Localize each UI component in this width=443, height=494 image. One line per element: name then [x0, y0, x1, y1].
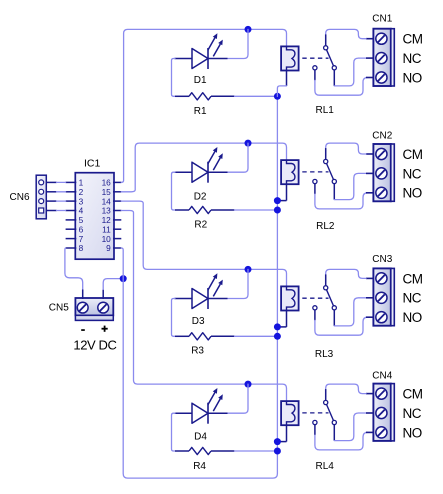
- junction node R4 / bus: [274, 448, 281, 455]
- IC1 pin 12 stub: [113, 219, 121, 221]
- wire IC1 output to channel 2 top rail: [121, 143, 286, 192]
- svg-text:NO: NO: [403, 425, 422, 440]
- wire relay RL2 coil to 12V bus: [277, 184, 286, 200]
- IC1 pin 8 stub: [66, 247, 77, 249]
- wire RL1 NC contact to terminal: [334, 58, 374, 86]
- CN4 screw NO: [376, 427, 387, 438]
- relay RL4 pivot contact: [324, 400, 328, 404]
- IC1 pin 3 stub: [66, 200, 77, 202]
- CN2 screw CM: [376, 148, 387, 159]
- relay RL1 NC contact: [332, 66, 336, 70]
- svg-text:CM: CM: [403, 387, 423, 402]
- wire CN5 plus to 12V bus: [103, 279, 123, 299]
- wire IC1 output to channel 4 top rail: [121, 211, 286, 402]
- resistor R2: [175, 206, 235, 213]
- svg-text:D2: D2: [194, 192, 207, 203]
- resistor R4: [175, 447, 235, 454]
- relay RL3 pivot contact: [324, 286, 328, 290]
- relay RL2 common wire from CM terminal: [326, 143, 375, 159]
- CN1 screw NO: [376, 72, 387, 83]
- wire IC1 pin8 to CN5 minus: [65, 248, 83, 299]
- relay RL4 NC contact: [332, 420, 336, 424]
- CN2 screw NC: [376, 168, 387, 179]
- relay RL4 NO contact: [313, 420, 317, 424]
- IC1 pin 7 stub: [66, 238, 77, 240]
- relay RL3 NO contact: [313, 306, 317, 310]
- wire CN6 pin3 to IC1 pin3: [46, 200, 65, 202]
- relay RL1 NO contact: [313, 66, 317, 70]
- wire RL3 NO contact to terminal: [315, 310, 375, 335]
- wire LED D2 anode to resistor R2: [172, 172, 176, 210]
- relay RL1 pivot contact: [324, 46, 328, 50]
- svg-text:IC1: IC1: [84, 157, 101, 169]
- wire relay RL3 coil to 12V bus: [277, 311, 286, 327]
- wire LED D3 anode to resistor R3: [172, 299, 176, 337]
- IC1 pin 5 stub: [66, 219, 77, 221]
- wire CN6 pin1 to IC1 pin1: [46, 181, 65, 183]
- junction node R3 / bus: [274, 333, 281, 340]
- svg-text:RL4: RL4: [316, 461, 335, 472]
- resistor R1: [175, 93, 235, 100]
- CN6 pin 4 square: [39, 208, 44, 213]
- svg-text:12V DC: 12V DC: [73, 338, 116, 353]
- LED D2: [175, 147, 228, 183]
- relay RL4 common wire from CM terminal: [326, 384, 375, 400]
- svg-text:CM: CM: [403, 32, 423, 47]
- IC1 pin 4 stub: [66, 210, 77, 212]
- relay RL3 common wire from CM terminal: [326, 269, 375, 285]
- junction node RL4 coil / bus: [274, 438, 281, 445]
- dashed link RL4 coil to contacts: [302, 412, 328, 414]
- wire LED D2 cathode to top rail: [228, 143, 249, 172]
- wire CN6 pin4 to IC1 pin4: [46, 210, 65, 212]
- svg-text:D1: D1: [194, 75, 207, 86]
- wire RL1 NO contact to terminal: [315, 70, 375, 95]
- wire CN6 pin2 to IC1 pin2: [46, 191, 65, 193]
- CN4 screw NC: [376, 407, 387, 418]
- label plus: [102, 326, 108, 332]
- svg-text:NC: NC: [403, 406, 422, 421]
- relay RL4 switch blade: [327, 404, 334, 420]
- junction node channel 1 top rail: [245, 26, 252, 33]
- wire resistor R4 to 12V bus: [235, 450, 278, 452]
- CN6 pin 1 circle: [39, 180, 44, 185]
- IC1 pin 10 stub: [113, 238, 121, 240]
- terminal block CN2: [373, 144, 394, 201]
- LED D3: [175, 273, 228, 309]
- relay RL4 coil: [281, 401, 299, 425]
- wire LED D1 cathode to top rail: [228, 29, 249, 58]
- svg-text:NO: NO: [403, 310, 422, 325]
- relay RL2 NO contact: [313, 179, 317, 183]
- wire LED D3 cathode to top rail: [228, 269, 249, 298]
- junction node R2 / bus: [274, 207, 281, 214]
- junction node channel 3 top rail: [245, 266, 252, 273]
- relay RL1 coil: [281, 46, 299, 70]
- svg-text:CN6: CN6: [10, 192, 30, 203]
- svg-text:NC: NC: [403, 291, 422, 306]
- svg-text:CN1: CN1: [372, 14, 392, 25]
- IC1 pin 1 stub: [66, 181, 77, 183]
- IC1 pin 13 stub: [113, 210, 121, 212]
- wire relay RL1 coil to 12V bus: [277, 71, 286, 97]
- power terminal CN5 body: [75, 298, 113, 320]
- svg-text:RL2: RL2: [316, 221, 335, 232]
- svg-text:NO: NO: [403, 70, 422, 85]
- connector CN6 body: [36, 175, 46, 219]
- IC1 pin 2 stub: [66, 191, 77, 193]
- terminal block CN3: [373, 268, 394, 325]
- svg-text:R4: R4: [193, 461, 206, 472]
- IC1 pin 14 stub: [113, 200, 121, 202]
- dashed link RL1 coil to contacts: [302, 57, 328, 59]
- svg-text:R3: R3: [191, 346, 204, 357]
- junction node channel 2 top rail: [245, 140, 252, 147]
- wire resistor R3 to 12V bus: [235, 335, 278, 337]
- relay RL2 coil: [281, 160, 299, 184]
- label minus: [81, 329, 85, 331]
- relay RL1 common wire from CM terminal: [326, 29, 375, 45]
- junction node RL3 coil / bus: [274, 323, 281, 330]
- wire resistor R1 to 12V bus: [235, 95, 278, 97]
- IC1 pin 11 stub: [113, 228, 121, 230]
- wire IC1 output to channel 3 top rail: [121, 201, 286, 286]
- IC IC1 body: [75, 173, 114, 260]
- svg-text:NC: NC: [403, 166, 422, 181]
- CN3 screw NC: [376, 292, 387, 303]
- svg-text:CM: CM: [403, 271, 423, 286]
- wire relay RL4 coil to 12V bus: [277, 425, 286, 441]
- resistor R3: [175, 333, 235, 340]
- svg-text:CM: CM: [403, 147, 423, 162]
- wire RL4 NO contact to terminal: [315, 425, 375, 450]
- CN5 screw 2: [98, 302, 109, 313]
- svg-text:RL1: RL1: [316, 105, 335, 116]
- dashed link RL2 coil to contacts: [302, 171, 328, 173]
- wire RL2 NO contact to terminal: [315, 184, 375, 209]
- CN1 screw CM: [376, 33, 387, 44]
- wire LED D1 anode to resistor R1: [172, 59, 176, 97]
- IC1 pin 6 stub: [66, 228, 77, 230]
- CN4 screw CM: [376, 388, 387, 399]
- svg-text:NO: NO: [403, 186, 422, 201]
- junction node CN5 plus: [120, 275, 127, 282]
- wire IC1 output to channel 1 top rail: [121, 29, 286, 182]
- svg-text:D3: D3: [192, 316, 205, 327]
- IC1 pin 15 stub: [113, 191, 121, 193]
- svg-text:9: 9: [106, 243, 111, 253]
- wire RL4 NC contact to terminal: [334, 413, 374, 441]
- dashed link RL3 coil to contacts: [302, 297, 328, 299]
- relay RL3 coil: [281, 286, 299, 310]
- CN6 pin 3 circle: [39, 199, 44, 204]
- relay RL2 NC contact: [332, 179, 336, 183]
- CN6 pin 2 circle: [39, 189, 44, 194]
- terminal block CN4: [373, 384, 394, 441]
- CN5 screw 1: [77, 302, 88, 313]
- svg-text:CN2: CN2: [372, 130, 392, 141]
- svg-text:NC: NC: [403, 51, 422, 66]
- CN3 screw CM: [376, 273, 387, 284]
- relay RL2 pivot contact: [324, 159, 328, 163]
- junction node R1 / bus: [274, 93, 281, 100]
- svg-text:R2: R2: [194, 219, 207, 230]
- wire RL2 NC contact to terminal: [334, 173, 374, 199]
- terminal block CN1: [373, 29, 394, 86]
- svg-text:8: 8: [79, 243, 84, 253]
- svg-text:R1: R1: [194, 106, 207, 117]
- relay RL1 switch blade: [327, 50, 334, 66]
- LED D4: [175, 388, 228, 424]
- CN3 screw NO: [376, 312, 387, 323]
- wire IC1 pin9 to 12V bottom rail: [121, 96, 277, 478]
- wire LED D4 cathode to top rail: [228, 384, 249, 413]
- relay RL3 NC contact: [332, 306, 336, 310]
- CN2 screw NO: [376, 187, 387, 198]
- svg-text:CN3: CN3: [372, 254, 392, 265]
- LED D1: [175, 33, 228, 69]
- wire resistor R2 to 12V bus: [235, 209, 278, 211]
- IC1 pin 16 stub: [113, 181, 121, 183]
- svg-text:D4: D4: [194, 432, 207, 443]
- CN1 screw NC: [376, 53, 387, 64]
- IC1 pin 9 stub: [113, 247, 121, 249]
- junction node RL2 coil / bus: [274, 197, 281, 204]
- svg-text:CN4: CN4: [372, 371, 392, 382]
- wire RL3 NC contact to terminal: [334, 298, 374, 326]
- junction node channel 4 top rail: [245, 381, 252, 388]
- wire LED D4 anode to resistor R4: [172, 413, 176, 451]
- svg-text:CN5: CN5: [49, 303, 69, 314]
- relay RL3 switch blade: [327, 290, 334, 306]
- relay RL2 switch blade: [327, 163, 334, 179]
- svg-text:RL3: RL3: [315, 349, 334, 360]
